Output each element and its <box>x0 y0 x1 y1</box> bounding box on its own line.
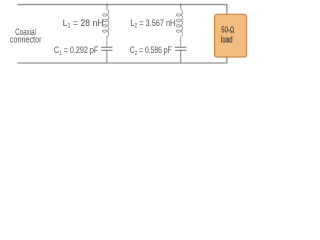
node label: Coaxial connector line 2 <box>10 35 42 45</box>
svg-text:L1 = 28 nH: L1 = 28 nH <box>63 18 104 30</box>
wire C1 to bottom bus <box>106 51 108 63</box>
wire bottom bus <box>18 57 227 63</box>
value label L1 = 28 nH <box>63 18 104 30</box>
svg-text:L2 = 3.567 nH: L2 = 3.567 nH <box>130 18 175 29</box>
svg-text:C1 = 0.292 pF: C1 = 0.292 pF <box>54 45 98 57</box>
value label C2 = 0.586 pF <box>130 45 172 57</box>
inductor L1 <box>103 5 109 47</box>
resistor load box 50 ohm <box>215 14 247 57</box>
value label L2 = 3.567 nH <box>130 18 175 29</box>
capacitor C2 <box>175 47 186 50</box>
junction top L2 <box>180 3 182 6</box>
wire top bus <box>18 5 227 15</box>
wire C2 to bottom bus <box>180 51 182 63</box>
svg-text:connector: connector <box>10 35 42 45</box>
value label C1 = 0.292 pF <box>54 45 98 57</box>
capacitor C1 <box>101 47 112 50</box>
svg-text:load: load <box>221 34 233 45</box>
svg-text:C2 = 0.586 pF: C2 = 0.586 pF <box>130 45 172 57</box>
junction top L1 <box>106 3 108 6</box>
inductor L2 <box>177 5 183 47</box>
node label: Coaxial connector line 1 <box>15 27 36 37</box>
load text 50-ohm <box>221 24 234 34</box>
load text load <box>221 34 233 45</box>
